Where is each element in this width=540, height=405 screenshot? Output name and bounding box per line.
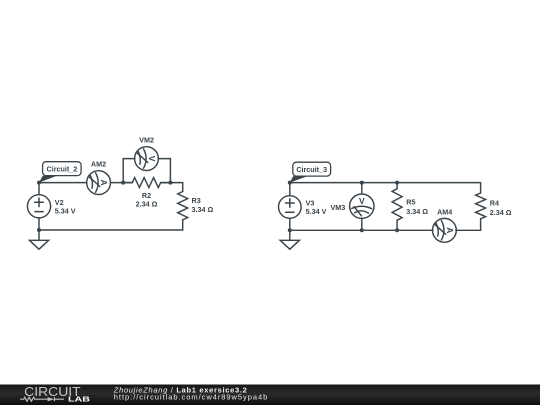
svg-text:LAB: LAB [68, 395, 91, 404]
svg-text:VM2: VM2 [139, 135, 154, 144]
svg-text:V: V [147, 156, 157, 162]
node at R5 bottom [395, 228, 399, 232]
footer bar [0, 385, 540, 405]
resistor R2 [123, 178, 169, 188]
node at R5 top [395, 181, 399, 185]
svg-text:http://circuitlab.com/cw4r89w5: http://circuitlab.com/cw4r89w5ypa4b [114, 392, 267, 401]
resistor R4 [476, 193, 486, 219]
node at VM3 bottom [360, 228, 364, 232]
wire: right circuit bottom rail left of AM4 [290, 229, 433, 231]
voltage source V3 [279, 196, 302, 219]
ground (right circuit) [280, 230, 299, 249]
label Circuit_2 [39, 162, 81, 183]
node at V3 bottom / ground [288, 228, 292, 232]
wire: V2 bottom stem [38, 218, 40, 230]
svg-text:3.34 Ω: 3.34 Ω [192, 205, 214, 214]
voltmeter VM2 [135, 147, 159, 171]
svg-text:R3: R3 [192, 196, 201, 205]
svg-text:AM4: AM4 [437, 207, 452, 216]
wire: VM2 branch right riser [158, 159, 170, 183]
wire: VM3 bottom stem [361, 218, 363, 230]
wire: V2 top stem [38, 183, 40, 195]
svg-text:VM3: VM3 [331, 203, 346, 212]
label V2 value [55, 198, 76, 216]
label R2 value [136, 191, 158, 209]
wire: VM2 branch left riser [123, 159, 135, 183]
wire: left circuit top from node to AM2 [39, 182, 87, 184]
footer logo squiggle and diode [20, 397, 64, 401]
node at VM3 top [360, 181, 364, 185]
wire: R5 top lead [396, 183, 398, 189]
node at V2 top junction [37, 181, 41, 185]
svg-text:R4: R4 [490, 199, 499, 208]
voltage source V2 [27, 195, 50, 218]
svg-text:5.34 V: 5.34 V [55, 207, 76, 216]
wire: right circuit top rail [290, 183, 481, 193]
wire: R5 bottom lead [396, 220, 398, 230]
svg-text:5.34 V: 5.34 V [306, 207, 327, 216]
svg-text:2.34 Ω: 2.34 Ω [490, 208, 512, 217]
svg-text:Circuit_3: Circuit_3 [296, 165, 327, 174]
resistor R3 [178, 192, 188, 220]
wire: R4 bottom lead [480, 219, 482, 231]
svg-text:AM2: AM2 [91, 160, 106, 169]
voltmeter VM3 [350, 194, 374, 218]
wire: R2 right to corner and down to R3 [161, 183, 183, 192]
wire: left circuit bottom rail [39, 229, 183, 231]
svg-text:Circuit_2: Circuit_2 [47, 164, 78, 173]
label R3 value [192, 196, 214, 214]
svg-text:V: V [359, 196, 365, 206]
label Circuit_3 [290, 162, 331, 182]
node at VM2 right tap [168, 181, 172, 185]
svg-text:R2: R2 [142, 191, 151, 200]
wire: R3 bottom to bottom rail [182, 220, 184, 230]
ammeter AM4 [433, 218, 457, 242]
node at V2 bottom / ground [37, 228, 41, 232]
wire: VM3 top stem [361, 183, 363, 194]
wire: AM2 to VM2 tap node [111, 182, 133, 184]
node at V3 top junction [288, 181, 292, 185]
svg-text:A: A [445, 227, 455, 233]
resistor R5 [392, 189, 402, 221]
ground (left circuit) [29, 230, 48, 249]
wire: right circuit bottom rail right of AM4 [456, 229, 481, 231]
ammeter AM2 [87, 171, 111, 195]
svg-text:3.34 Ω: 3.34 Ω [406, 207, 428, 216]
node at VM2 left tap [121, 181, 125, 185]
wire: V3 bottom stem [289, 218, 291, 230]
label R5 value [406, 197, 428, 216]
svg-text:2.34 Ω: 2.34 Ω [136, 200, 158, 209]
svg-text:R5: R5 [406, 197, 415, 206]
label V3 value [306, 198, 327, 216]
label R4 value [490, 199, 512, 217]
wire: V3 top stem [289, 183, 291, 196]
svg-text:A: A [99, 180, 109, 186]
